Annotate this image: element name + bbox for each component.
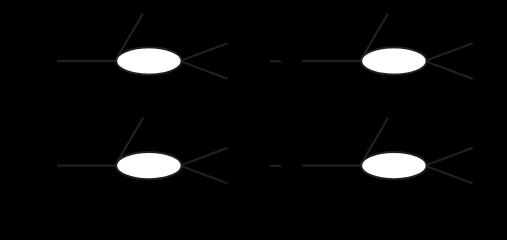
wire: upper-right outgoing line D1: [180, 43, 228, 61]
wire: incoming line D4: [302, 165, 361, 167]
blob B3 (interaction ellipse): [116, 152, 181, 179]
diagram 2 (top-right): [302, 14, 473, 79]
wire: upper-right outgoing line D4: [425, 148, 473, 166]
wire: lower-right outgoing line D2: [425, 61, 473, 79]
minus sign (top row): [270, 60, 281, 62]
wire: incoming line D1: [57, 60, 116, 62]
diagram 3 (bottom-left): [57, 118, 228, 183]
wire: incoming line D3: [57, 165, 116, 167]
wire: upper-right outgoing line D3: [180, 148, 228, 166]
blob B2 (interaction ellipse): [361, 47, 426, 74]
blob B4 (interaction ellipse): [361, 152, 426, 179]
wire: upper-right outgoing line D2: [425, 43, 473, 61]
wire: lower-right outgoing line D3: [180, 166, 228, 184]
wire: lower-right outgoing line D4: [425, 166, 473, 184]
blob B1 (interaction ellipse): [116, 47, 181, 74]
wire: incoming line D2: [302, 60, 361, 62]
wire: lower-right outgoing line D1: [180, 61, 228, 79]
wire: upper-left outgoing line D2: [360, 14, 388, 62]
minus sign (bottom row): [270, 165, 281, 167]
diagram 1 (top-left): [57, 14, 228, 79]
wire: upper-left outgoing line D4: [360, 118, 388, 166]
wire: upper-left outgoing line D3: [115, 118, 143, 166]
wire: upper-left outgoing line D1: [115, 14, 143, 62]
diagram 4 (bottom-right): [302, 118, 473, 183]
